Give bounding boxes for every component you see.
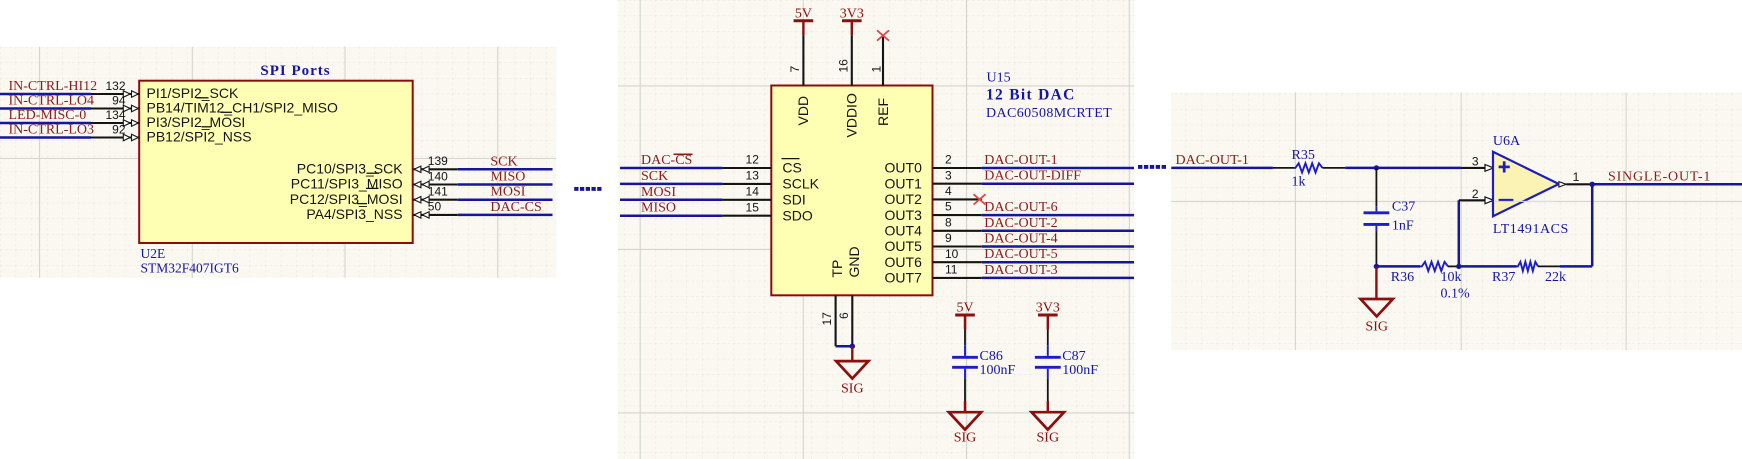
svg-text:139: 139 — [428, 154, 448, 168]
svg-text:MOSI: MOSI — [641, 185, 676, 200]
svg-text:4: 4 — [945, 184, 952, 198]
svg-text:DAC-OUT-1: DAC-OUT-1 — [1176, 153, 1249, 168]
svg-text:1k: 1k — [1292, 175, 1306, 190]
svg-text:1nF: 1nF — [1392, 218, 1414, 233]
overline on TIM12 M — [197, 97, 209, 99]
svg-text:DAC-OUT-DIFF: DAC-OUT-DIFF — [984, 169, 1081, 184]
wire SCK — [458, 168, 553, 171]
pin 16 VDDIO — [836, 35, 859, 137]
svg-text:TP: TP — [829, 260, 845, 278]
svg-text:SCLK: SCLK — [782, 176, 819, 192]
svg-text:22k: 22k — [1545, 270, 1566, 285]
svg-text:OUT3: OUT3 — [885, 207, 923, 223]
pin 94 PB14/TIM12_CH1/SPI2_MISO — [91, 93, 338, 115]
wire feedback to output — [1591, 184, 1594, 266]
svg-text:0.1%: 0.1% — [1441, 286, 1471, 301]
wire feedback vertical — [1458, 200, 1461, 266]
grid area middle — [618, 0, 1135, 459]
svg-text:141: 141 — [428, 185, 448, 199]
svg-text:STM32F407IGT6: STM32F407IGT6 — [141, 261, 240, 276]
svg-text:PB12/SPI2_NSS: PB12/SPI2_NSS — [147, 129, 252, 145]
power port 3V3 at C87 — [1036, 301, 1060, 330]
svg-text:IN-CTRL-HI12: IN-CTRL-HI12 — [9, 79, 98, 94]
junction TP-GND — [850, 344, 855, 349]
wire DAC-OUT-DIFF — [982, 182, 1134, 185]
svg-text:U15: U15 — [987, 71, 1011, 86]
wire MISO — [620, 214, 722, 217]
overline on MOSI M — [366, 187, 379, 189]
pin 50 PA4/SPI3_NSS — [306, 200, 457, 222]
svg-text:R35: R35 — [1292, 148, 1315, 163]
pin 17 TP — [820, 260, 845, 347]
wire DAC-OUT-1 — [982, 167, 1134, 170]
wire SCK — [620, 183, 722, 186]
svg-text:IN-CTRL-LO3: IN-CTRL-LO3 — [9, 123, 95, 138]
svg-text:PC11/SPI3_MISO: PC11/SPI3_MISO — [291, 176, 403, 192]
pin 9 OUT5 — [885, 231, 982, 254]
pin 132 PI1/SPI2_SCK — [91, 79, 239, 101]
grid area left — [0, 47, 556, 278]
svg-text:SPI Ports: SPI Ports — [260, 63, 330, 79]
ground SIG at C87 — [1032, 401, 1064, 446]
wire DAC-OUT-4 — [982, 245, 1134, 248]
svg-text:OUT2: OUT2 — [885, 191, 923, 207]
resistor R35 — [1273, 148, 1345, 189]
svg-text:13: 13 — [746, 169, 760, 183]
resistor R37 — [1459, 262, 1592, 285]
svg-text:LT1491ACS: LT1491ACS — [1493, 222, 1569, 237]
wire LED-MISC-0 — [0, 122, 91, 125]
wire MISO — [458, 183, 553, 186]
svg-text:SCK: SCK — [490, 154, 517, 169]
svg-text:VDD: VDD — [795, 96, 811, 126]
overline on MOSI O — [221, 111, 233, 113]
svg-text:VDDIO: VDDIO — [844, 93, 860, 137]
wire DAC-CS — [620, 167, 722, 170]
svg-text:5V: 5V — [956, 301, 973, 316]
pin 11 OUT7 — [885, 263, 982, 286]
svg-text:50: 50 — [428, 200, 442, 214]
svg-text:SIG: SIG — [954, 431, 977, 446]
pin 13 SCLK — [722, 169, 819, 192]
svg-text:92: 92 — [112, 122, 126, 136]
svg-text:140: 140 — [428, 169, 448, 183]
svg-text:OUT7: OUT7 — [885, 270, 923, 286]
svg-text:DAC-OUT-3: DAC-OUT-3 — [984, 263, 1057, 278]
svg-text:14: 14 — [746, 184, 760, 198]
svg-text:94: 94 — [112, 93, 126, 107]
wire MOSI — [458, 198, 553, 201]
svg-text:PC10/SPI3_SCK: PC10/SPI3_SCK — [297, 161, 403, 177]
pin 12 CS — [722, 153, 801, 176]
svg-text:15: 15 — [746, 200, 760, 214]
svg-text:OUT4: OUT4 — [885, 223, 923, 239]
svg-text:100nF: 100nF — [980, 363, 1016, 378]
wire R35 to plus input — [1345, 167, 1461, 170]
svg-text:8: 8 — [945, 215, 952, 229]
svg-text:1: 1 — [870, 66, 884, 73]
op-amp U6A — [1493, 152, 1559, 216]
svg-text:132: 132 — [105, 79, 125, 93]
svg-text:3V3: 3V3 — [1036, 301, 1060, 316]
svg-text:12 Bit DAC: 12 Bit DAC — [986, 87, 1076, 104]
svg-text:SIG: SIG — [1365, 320, 1388, 335]
svg-text:5: 5 — [945, 200, 952, 214]
svg-text:R36: R36 — [1391, 270, 1414, 285]
svg-text:2: 2 — [945, 153, 952, 167]
svg-text:3: 3 — [1472, 155, 1479, 169]
svg-text:134: 134 — [105, 108, 125, 122]
pin 140 PC11/SPI3_MISO — [291, 169, 458, 191]
overline on SPI2 I — [202, 126, 212, 128]
svg-text:10k: 10k — [1441, 270, 1462, 285]
capacitor C86 — [952, 330, 1015, 402]
no-connect on REF — [877, 30, 889, 40]
svg-text:DAC-OUT-6: DAC-OUT-6 — [984, 200, 1057, 215]
power port 3V3 — [840, 6, 864, 35]
wire C37 vertical bottom — [1375, 232, 1377, 267]
wire DAC-OUT-2 — [982, 230, 1134, 233]
power port 5V at C86 — [955, 301, 975, 330]
continuation dashes SPI bus — [574, 187, 601, 191]
junction feedback node — [1456, 264, 1461, 269]
svg-text:REF: REF — [875, 98, 891, 126]
pin 92 PB12/SPI2_NSS — [91, 122, 252, 144]
pin 10 OUT6 — [885, 247, 982, 270]
pin 5 OUT3 — [885, 200, 982, 223]
svg-text:MISO: MISO — [641, 201, 676, 216]
svg-text:SDI: SDI — [782, 192, 805, 208]
pin 1 REF — [870, 36, 891, 126]
svg-text:OUT1: OUT1 — [885, 175, 923, 191]
svg-text:6: 6 — [837, 312, 851, 319]
pin 1 output — [1559, 170, 1592, 187]
svg-text:DAC-CS: DAC-CS — [641, 153, 692, 168]
continuation dashes DAC-OUT-1 — [1138, 165, 1166, 169]
wire TP to GND — [836, 345, 853, 348]
wire C37 vertical top — [1375, 168, 1377, 206]
svg-text:MOSI: MOSI — [490, 185, 525, 200]
wire DAC-OUT-6 — [982, 214, 1134, 217]
svg-text:U6A: U6A — [1493, 134, 1521, 149]
svg-text:C87: C87 — [1062, 349, 1085, 364]
wire DAC-OUT-3 — [982, 277, 1134, 280]
capacitor C87 — [1035, 330, 1098, 402]
svg-text:DAC60508MCRTET: DAC60508MCRTET — [986, 106, 1112, 121]
pin 6 GND — [837, 246, 862, 346]
svg-text:17: 17 — [820, 312, 834, 326]
junction at C37 bottom — [1374, 264, 1379, 269]
svg-text:OUT5: OUT5 — [885, 238, 923, 254]
svg-text:12: 12 — [746, 153, 760, 167]
pin 8 OUT4 — [885, 215, 982, 238]
pin 3 OUT1 — [885, 168, 982, 191]
svg-text:100nF: 100nF — [1062, 363, 1098, 378]
ground SIG at DAC GND — [836, 346, 868, 396]
junction output node — [1590, 182, 1595, 187]
svg-text:2: 2 — [1472, 187, 1479, 201]
svg-text:3: 3 — [945, 168, 952, 182]
pin 4 OUT2 — [885, 184, 982, 207]
overline on MISO M — [367, 172, 380, 174]
grid area right — [1171, 93, 1742, 351]
overline on DAC-CS label CS — [674, 153, 693, 155]
wire DAC-OUT-1 input — [1171, 167, 1273, 170]
ground SIG at C86 — [949, 401, 981, 446]
svg-text:OUT6: OUT6 — [885, 254, 923, 270]
svg-text:5V: 5V — [795, 6, 812, 21]
pin 2 minus input — [1459, 187, 1494, 204]
svg-text:16: 16 — [836, 59, 850, 73]
svg-text:DAC-OUT-2: DAC-OUT-2 — [984, 216, 1057, 231]
svg-text:SIG: SIG — [1037, 431, 1060, 446]
pin 2 OUT0 — [885, 153, 982, 176]
svg-text:10: 10 — [945, 247, 959, 261]
pin 3 plus input — [1461, 155, 1494, 172]
svg-text:1: 1 — [1573, 170, 1580, 184]
svg-text:3V3: 3V3 — [840, 6, 864, 21]
power port 5V — [794, 6, 814, 35]
wire IN-CTRL-HI12 — [0, 93, 91, 96]
wire IN-CTRL-LO3 — [0, 136, 91, 139]
svg-text:U2E: U2E — [141, 246, 166, 261]
svg-text:PC12/SPI3_MOSI: PC12/SPI3_MOSI — [290, 191, 403, 207]
svg-text:CS: CS — [782, 160, 801, 176]
svg-text:DAC-CS: DAC-CS — [490, 200, 541, 215]
pin 14 SDI — [722, 184, 805, 207]
svg-text:C37: C37 — [1392, 200, 1415, 215]
pin 141 PC12/SPI3_MOSI — [290, 185, 458, 207]
wire DAC-OUT-5 — [982, 261, 1134, 264]
wire MOSI — [620, 199, 722, 202]
pin 139 PC10/SPI3_SCK — [297, 154, 458, 176]
ground SIG at C37 — [1361, 266, 1393, 334]
wire SINGLE-OUT-1 — [1592, 183, 1742, 186]
svg-text:R37: R37 — [1492, 270, 1515, 285]
svg-text:GND: GND — [846, 246, 862, 277]
pin 7 VDD — [788, 35, 811, 125]
overline on CS pin name — [782, 158, 800, 160]
overline on SPI3 3 — [357, 203, 367, 205]
svg-text:SIG: SIG — [841, 382, 864, 397]
svg-text:MISO: MISO — [490, 170, 525, 185]
svg-text:LED-MISC-0: LED-MISC-0 — [9, 108, 87, 123]
svg-text:DAC-OUT-1: DAC-OUT-1 — [984, 153, 1057, 168]
svg-text:SCK: SCK — [641, 169, 668, 184]
svg-text:IN-CTRL-LO4: IN-CTRL-LO4 — [9, 94, 95, 109]
resistor R36 — [1376, 262, 1470, 302]
svg-text:SDO: SDO — [782, 207, 812, 223]
DAC block U15 — [771, 86, 932, 296]
svg-text:7: 7 — [788, 66, 802, 73]
svg-text:C86: C86 — [980, 349, 1003, 364]
wire IN-CTRL-LO4 — [0, 107, 91, 110]
svg-text:DAC-OUT-4: DAC-OUT-4 — [984, 232, 1057, 247]
wire DAC-CS — [458, 214, 553, 217]
svg-text:PA4/SPI3_NSS: PA4/SPI3_NSS — [306, 206, 402, 222]
svg-text:DAC-OUT-5: DAC-OUT-5 — [984, 247, 1057, 262]
svg-text:11: 11 — [945, 263, 958, 277]
svg-text:SINGLE-OUT-1: SINGLE-OUT-1 — [1608, 169, 1711, 184]
capacitor C37 — [1364, 200, 1416, 234]
svg-text:9: 9 — [945, 231, 952, 245]
pin 15 SDO — [722, 200, 812, 223]
pin 134 PI3/SPI2_MOSI — [91, 108, 245, 130]
junction at C37 top — [1374, 165, 1379, 170]
no-connect on OUT2 — [974, 194, 986, 204]
MCU block U2E — [139, 81, 413, 243]
svg-text:OUT0: OUT0 — [885, 160, 923, 176]
